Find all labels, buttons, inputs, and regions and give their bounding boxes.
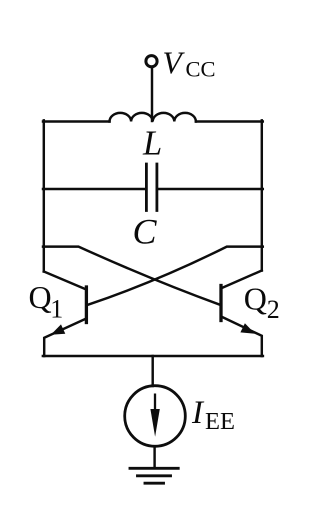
transistor Q1 emitter arrowhead bbox=[51, 324, 66, 334]
svg-text:Q: Q bbox=[244, 281, 267, 317]
power terminal VCC bbox=[146, 56, 157, 67]
wire bottom to current source bbox=[151, 356, 153, 386]
svg-text:Q: Q bbox=[29, 279, 52, 315]
capacitor C plates bbox=[146, 164, 157, 211]
inductor L bbox=[110, 113, 196, 122]
wire capacitor right bbox=[157, 188, 263, 190]
wire Q2 collector bbox=[222, 271, 262, 289]
current source arrow bbox=[154, 394, 156, 413]
svg-text:I: I bbox=[191, 395, 205, 431]
transistor Q2 emitter bbox=[222, 317, 262, 356]
svg-text:2: 2 bbox=[267, 295, 280, 324]
svg-text:CC: CC bbox=[186, 57, 216, 82]
svg-text:L: L bbox=[142, 124, 162, 162]
wire VCC to inductor center tap bbox=[151, 67, 153, 121]
transistor Q2 emitter arrowhead bbox=[240, 323, 255, 334]
transistor Q1 base bar bbox=[85, 287, 88, 323]
svg-text:EE: EE bbox=[205, 408, 235, 435]
transistor Q1 emitter bbox=[44, 319, 85, 356]
wire right rail bbox=[261, 120, 263, 270]
current source IEE circle bbox=[125, 386, 186, 447]
svg-text:V: V bbox=[163, 45, 186, 80]
ground bbox=[130, 468, 178, 483]
wire cross-coupling right rail to Q1 base bbox=[88, 247, 263, 305]
wire left rail bbox=[43, 120, 45, 271]
svg-text:C: C bbox=[133, 212, 158, 252]
wire Q1 collector bbox=[44, 272, 85, 290]
svg-text:1: 1 bbox=[50, 295, 63, 324]
wire cross-coupling left rail to Q2 base bbox=[43, 247, 220, 305]
wire top-right (inductor to rail) bbox=[196, 120, 263, 122]
wire bottom bbox=[43, 355, 263, 358]
transistor Q2 base bar bbox=[219, 286, 222, 321]
wire current source to ground bbox=[153, 446, 155, 467]
wire top-left (rail to inductor) bbox=[43, 120, 110, 122]
wire capacitor left bbox=[43, 188, 146, 190]
